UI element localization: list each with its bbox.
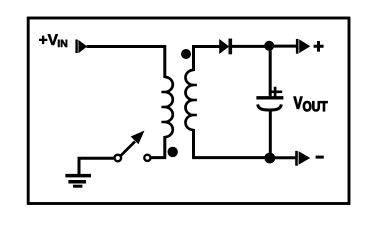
- wire capacitor bottom to bottom junction: [269, 109, 272, 155]
- capacitor C1 bottom plate (curved): [258, 104, 282, 110]
- diode D1: [219, 39, 232, 55]
- switch S1 left contact: [115, 155, 122, 162]
- node junction dot top (output + rail): [264, 41, 274, 51]
- label + output: [314, 41, 324, 52]
- output terminal arrow +: [296, 39, 310, 54]
- transformer T1 secondary winding L2: [186, 70, 194, 130]
- node +VIN label: [39, 34, 67, 47]
- capacitor C1 top plate: [256, 96, 283, 99]
- switch S1 right contact: [144, 155, 150, 161]
- capacitor C1 polarity + mark: [270, 87, 282, 97]
- wire diode cathode to top junction: [232, 45, 266, 48]
- wire +VIN to primary top: [87, 45, 167, 78]
- wire switch to ground: [79, 157, 114, 176]
- node VOUT label: [294, 97, 328, 112]
- primary polarity dot: [168, 147, 178, 157]
- node junction dot bottom (output - rail): [264, 153, 275, 164]
- ground symbol: [65, 176, 91, 187]
- wire primary bottom to switch: [152, 136, 167, 158]
- wire top junction down to capacitor: [269, 46, 272, 97]
- secondary polarity dot: [181, 49, 191, 59]
- input terminal arrow +VIN: [75, 40, 87, 54]
- output terminal arrow -: [295, 151, 310, 166]
- transformer T1 primary winding L1: [165, 77, 173, 137]
- wire secondary top to diode anode: [192, 45, 219, 71]
- wire junction to + output terminal: [272, 45, 296, 48]
- label - output: [316, 156, 324, 159]
- wire secondary bottom to bottom junction: [192, 129, 266, 158]
- wire junction to - output terminal: [273, 156, 296, 159]
- switch S1 blade with actuation arrow: [121, 131, 145, 156]
